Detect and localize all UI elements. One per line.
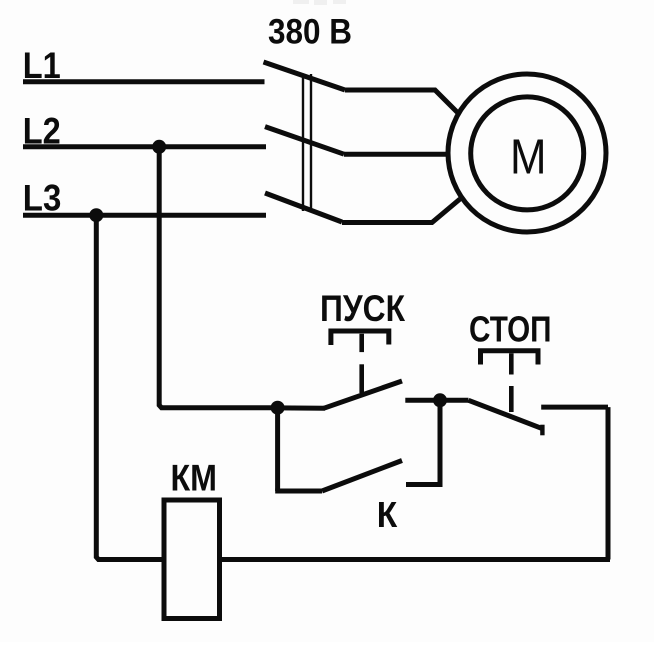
svg-text:380 В: 380 В	[268, 13, 352, 52]
wire phase 3 to motor	[342, 199, 460, 223]
contactor coil КМ	[164, 500, 220, 619]
cropped faint text at top edge	[293, 0, 346, 5]
svg-text:M: M	[510, 131, 547, 185]
auxiliary contact К blade	[322, 461, 402, 492]
stop button СТОП NC contact blade	[469, 400, 542, 428]
start button ПУСК plunger stem (dashed)	[359, 334, 364, 393]
motor M outer circle	[448, 74, 606, 232]
svg-text:КМ: КМ	[171, 458, 218, 499]
wire bottom from coil to right side	[222, 557, 610, 562]
wire L3	[23, 213, 266, 218]
wire from L3 junction down the left side	[96, 215, 161, 559]
svg-text:К: К	[377, 494, 398, 535]
contactor mechanical linkage (double bar)	[303, 74, 311, 211]
wire down from left junction to aux contact	[275, 408, 280, 491]
wire rung to start button	[278, 405, 325, 410]
wire from L2 junction down to control rung	[159, 147, 277, 408]
junction dot on L2	[152, 140, 166, 154]
motor M inner circle	[471, 97, 584, 210]
junction node right rung	[433, 393, 447, 407]
stop button СТОП plunger stem (dashed)	[509, 353, 514, 412]
svg-text:L3: L3	[23, 176, 62, 218]
wire L2	[23, 144, 266, 149]
auxiliary contact К fixed contact L-hook	[406, 400, 440, 484]
contactor KM main contact blade phase 2	[265, 127, 344, 155]
wire rung from СТОП to right side	[541, 405, 608, 410]
stop button СТОП fixed contact tick	[540, 425, 544, 436]
start button ПУСК actuator bracket	[331, 331, 389, 345]
wire phase 2 to motor	[344, 152, 450, 157]
wire phase 1 to motor	[345, 90, 458, 113]
wire L1	[23, 79, 265, 84]
contactor KM main contact blade phase 3	[265, 193, 342, 222]
wire right side vertical	[606, 407, 611, 559]
svg-text:ПУСК: ПУСК	[320, 288, 405, 329]
svg-text:СТОП: СТОП	[469, 309, 552, 350]
wire rung between ПУСК and СТОП	[405, 398, 468, 403]
junction dot on L3	[89, 208, 103, 222]
start button ПУСК NO contact blade	[324, 381, 402, 408]
stop button СТОП actuator bracket	[481, 351, 539, 365]
wire aux contact lower lead	[275, 489, 322, 494]
contactor KM main contact blade phase 1	[264, 62, 346, 90]
junction node left rung	[271, 401, 285, 415]
